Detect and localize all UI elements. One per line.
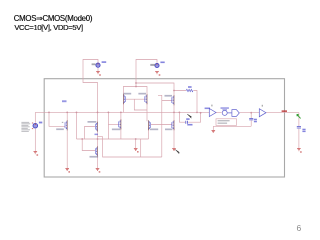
- ground under VCC: [96, 72, 101, 76]
- label PMOSA Mbreakp: [123, 93, 131, 95]
- label M7 Mbreakn: [150, 129, 158, 131]
- wire ground tap y139: [135, 139, 137, 148]
- wire M2 drain: [97, 112, 99, 122]
- ground under V1: [34, 152, 39, 156]
- wire feedback resistor net: [174, 91, 197, 113]
- capacitor C3 plates: [297, 127, 301, 129]
- voltage source VCC: [92, 61, 107, 67]
- wire mosfetD branch: [147, 103, 149, 139]
- title line 1: [14, 14, 93, 23]
- mosfet PMOS B: [146, 94, 148, 104]
- wire M1 source to ground: [66, 130, 68, 168]
- ground under VDD: [155, 72, 160, 76]
- mosfet M6: [173, 120, 175, 130]
- schematic border box: [44, 79, 284, 177]
- ground G stage3: [172, 148, 176, 150]
- mosfet M7 mirrored: [148, 120, 150, 130]
- spice directive text block: [21, 122, 30, 132]
- wire output load cap: [298, 129, 300, 149]
- probe marker green: [297, 114, 301, 118]
- ground G under M4: [96, 169, 101, 173]
- wire bus to tri1-gates segment: [216, 112, 222, 114]
- wire input source up: [34, 112, 36, 122]
- wire riser x140.7: [140, 139, 142, 157]
- cursor arrow near C1: [187, 114, 191, 118]
- wire M4 drain: [97, 139, 99, 147]
- wire bottom route to stage3 gate: [98, 137, 162, 157]
- label U2 U3 blue: [221, 107, 229, 109]
- label M2 Mbreakn: [88, 121, 97, 123]
- resistor R1 body: [186, 89, 193, 91]
- voltage source V1 input: [32, 122, 42, 130]
- wire mosfetC source: [120, 128, 122, 139]
- wire coupling x76.5: [76, 112, 78, 139]
- label M6 Mbreakn: [165, 129, 172, 131]
- label Vout red: [282, 110, 287, 112]
- mosfet M4: [97, 146, 99, 156]
- wire mosfetC drain: [120, 112, 122, 120]
- ground G under M1: [65, 169, 70, 173]
- gate U2 symbol: [222, 110, 231, 116]
- label M2 value: [95, 134, 99, 136]
- wire main horizontal bus: [35, 111, 209, 113]
- gate U3 symbol: [232, 110, 239, 117]
- wire VDD loop: [136, 60, 174, 97]
- wire PMOS A drain: [122, 103, 124, 113]
- cursor arrow near stage3 ground: [175, 150, 179, 154]
- buffer U4 triangle: [259, 109, 266, 117]
- page number: [297, 223, 302, 233]
- wire coupling x108.4: [107, 112, 109, 139]
- wire input source down to ground: [34, 129, 36, 152]
- wire M1 drain: [66, 112, 68, 121]
- label PMOSB Mbreakp: [138, 93, 146, 95]
- label DSTM blue: [205, 108, 210, 110]
- wire gate line y139: [77, 138, 149, 140]
- wire M4 source to ground: [97, 156, 99, 169]
- wire VCC ground stub: [97, 68, 99, 72]
- label M3 Mbreakn: [112, 129, 120, 131]
- title line 2: [14, 23, 83, 32]
- wire M2 gate stub: [85, 127, 96, 140]
- capacitor C1 plates: [186, 121, 188, 124]
- label U4 tick: [262, 105, 263, 107]
- wire VCC loop: [83, 60, 98, 113]
- label R1 value: [188, 86, 192, 88]
- mosfet M2: [97, 122, 99, 132]
- wire gates to tri2 segment: [240, 112, 260, 114]
- ground G mirror tap: [134, 148, 139, 152]
- mosfet M3: [120, 119, 122, 129]
- wire M4 gate tap: [82, 139, 95, 151]
- wire M5 M6 gate stubs: [151, 101, 172, 125]
- mosfet PMOS A mirrored: [122, 94, 124, 104]
- label M1 refdes: [62, 100, 67, 102]
- label M1 Mbreakn: [56, 128, 64, 130]
- wire M1 gate tap: [49, 112, 65, 126]
- label C3 value: [302, 129, 305, 131]
- ground digital DGND: [212, 131, 216, 133]
- label M5 Mbreakp: [165, 95, 173, 97]
- wire M5 M6 channel: [173, 105, 175, 148]
- wire digital ground rail: [213, 126, 251, 130]
- wire stage3 gate bus: [158, 95, 162, 157]
- wire cap C2 branch: [250, 113, 252, 127]
- junction dots: [48, 82, 252, 140]
- wire mirror gate tie: [126, 99, 147, 110]
- label M4 Mbreakn: [90, 156, 99, 158]
- mosfet M5 pmos: [173, 95, 175, 105]
- buffer U1 triangle: [209, 109, 216, 117]
- mosfet M1: [66, 120, 68, 130]
- label U1 tick: [211, 105, 212, 107]
- attribute box: [216, 119, 237, 126]
- wire M3 gate stub: [108, 124, 118, 126]
- wire VDD mirror rail: [123, 83, 147, 95]
- wire tri2 output to load: [266, 113, 299, 127]
- voltage source VDD: [150, 62, 164, 68]
- wire cap C1 branch: [179, 112, 200, 122]
- wire M2 source: [97, 130, 99, 139]
- capacitor C2 plates: [249, 119, 253, 120]
- label C1 value: [186, 118, 189, 120]
- label C2 value: [254, 119, 257, 121]
- ground G output load: [297, 149, 302, 153]
